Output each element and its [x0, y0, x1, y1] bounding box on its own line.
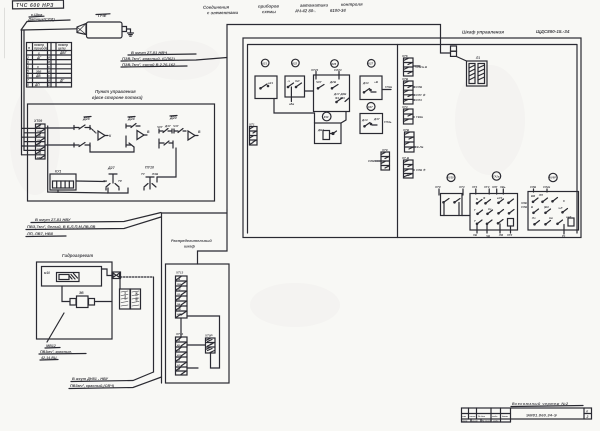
svg-text:пров: пров	[462, 421, 468, 423]
svg-text:Р1: Р1	[562, 234, 566, 238]
svg-text:лв: лв	[36, 125, 41, 129]
svg-text:ХЛ7: ХЛ7	[491, 185, 498, 189]
svg-text:№ докум: № докум	[482, 420, 492, 423]
svg-text:К26: К26	[332, 62, 337, 66]
svg-text:ХТ4: ХТ4	[458, 185, 465, 189]
label punkt upravleniya	[92, 89, 143, 100]
svg-text:СЛУ ②: СЛУ ②	[416, 93, 426, 97]
relay circle K30	[322, 112, 331, 121]
svg-text:пв: пв	[177, 303, 181, 306]
relay circle K26	[331, 60, 339, 68]
svg-text:цепи: цепи	[58, 47, 66, 51]
wire XT24	[310, 68, 342, 79]
title note	[511, 402, 583, 407]
svg-text:ЭМ81.860.34-Э: ЭМ81.860.34-Э	[526, 413, 557, 418]
contact box K26	[314, 75, 350, 112]
svg-text:КУ6Р: КУ6Р	[549, 176, 556, 180]
wires raspred	[187, 344, 206, 346]
svg-text:К22: К22	[292, 61, 297, 65]
svg-text:ХТЗ: ХТЗ	[483, 185, 490, 189]
svg-text:Шкаф управления: Шкаф управления	[462, 29, 504, 35]
svg-text:лз: лз	[36, 138, 41, 142]
terminal strip XT7	[401, 156, 426, 178]
svg-text:тр: тр	[177, 283, 181, 286]
svg-text:ХТ09: ХТ09	[33, 119, 42, 123]
svg-text:Г: Г	[474, 208, 476, 212]
svg-text:х: х	[36, 65, 39, 69]
svg-text:Д27: Д27	[107, 166, 116, 170]
tall label boxes	[120, 278, 141, 309]
svg-text:СЛВ: СЛВ	[416, 85, 422, 89]
svg-text:ЖВ ПВ²: ЖВ ПВ²	[135, 291, 139, 302]
svg-text:ХТ0Р: ХТ0Р	[204, 334, 213, 338]
note MV12	[39, 344, 86, 360]
wire bus mid	[274, 99, 315, 124]
svg-text:СЛЗ: СЛЗ	[416, 98, 422, 102]
svg-text:5: 5	[27, 70, 29, 74]
contact box middle	[470, 185, 518, 238]
wire jog to connector	[102, 269, 113, 276]
svg-text:кр: кр	[177, 344, 180, 347]
svg-text:ту: ту	[37, 134, 41, 138]
contact box K21	[255, 76, 277, 99]
connector L1	[467, 56, 488, 86]
wire KU1 to D27	[76, 180, 105, 183]
svg-text:синий: синий	[124, 292, 128, 300]
label shkaf upravleniya	[462, 29, 570, 35]
inner box M10	[42, 267, 102, 287]
svg-text:с элементами: с элементами	[207, 10, 239, 15]
svg-text:№ док: № док	[478, 415, 486, 418]
svg-text:1: 1	[48, 83, 50, 87]
svg-text:ХТ14: ХТ14	[175, 332, 184, 336]
svg-text:Д2В: Д2В	[329, 80, 337, 84]
svg-text:лз: лз	[176, 293, 181, 296]
svg-text:нв: нв	[37, 155, 41, 159]
svg-text:Д33: Д33	[362, 81, 369, 85]
svg-text:4: 4	[26, 65, 29, 69]
note wires vjgut left bottom	[26, 213, 161, 237]
amplifier triangle K	[98, 131, 105, 140]
svg-text:2: 2	[26, 56, 29, 60]
svg-text:6: 6	[27, 74, 29, 78]
terminal strip XT9	[368, 148, 390, 170]
svg-text:ХТ24: ХТ24	[310, 68, 319, 72]
wire stamp to bus	[21, 22, 27, 31]
relay circle K22	[292, 59, 300, 67]
svg-text:ХВ: ХВ	[472, 233, 477, 237]
svg-text:ЛП, ЛВ7, НВ8: ЛП, ЛВ7, НВ8	[26, 231, 54, 236]
relay contacts D20	[157, 116, 201, 149]
svg-text:Ч07: Ч07	[316, 80, 322, 84]
component EV	[62, 286, 112, 308]
svg-text:а5в: а5в	[289, 102, 294, 106]
svg-text:зл: зл	[177, 359, 180, 362]
terminal strip XT09	[33, 119, 45, 159]
svg-text:Распределительный: Распределительный	[171, 239, 212, 243]
wire under relays	[90, 147, 134, 152]
svg-text:контроля: контроля	[341, 2, 363, 7]
svg-text:ДП: ДП	[34, 83, 40, 87]
svg-text:вб: вб	[177, 297, 181, 301]
ground	[127, 29, 134, 36]
svg-text:К27: К27	[368, 62, 373, 66]
svg-text:тр: тр	[37, 129, 41, 133]
connector funnel	[77, 24, 86, 35]
motor M6	[87, 13, 127, 38]
svg-text:ГЛЗь: ГЛЗь	[384, 120, 392, 124]
svg-text:Ч07: Ч07	[157, 125, 163, 129]
svg-text:Лч: Лч	[531, 216, 536, 220]
wire strip to contacts	[22, 128, 36, 154]
svg-text:ЭВ: ЭВ	[79, 291, 84, 295]
box punkt upravleniya	[28, 104, 215, 201]
svg-text:Соединения: Соединения	[203, 5, 230, 10]
svg-text:Д24: Д24	[127, 117, 135, 121]
relay circle KU20	[447, 174, 455, 182]
svg-text:ДВГ: ДВГ	[59, 51, 68, 55]
svg-text:ХТ0: ХТ0	[434, 185, 441, 189]
contact group XT0 XT4	[434, 185, 470, 216]
svg-text:СЛВ: СЛВ	[368, 159, 375, 163]
svg-text:В: В	[531, 205, 533, 209]
wire bus to raspred	[198, 210, 228, 264]
svg-text:Д20: Д20	[169, 116, 177, 120]
svg-text:КУ1: КУ1	[55, 170, 61, 174]
svg-text:ТР: ТР	[118, 179, 122, 183]
cabinet connector top	[451, 46, 467, 61]
svg-text:Д47: Д47	[164, 124, 171, 128]
svg-text:СЛ24: СЛ24	[334, 68, 342, 72]
relay contacts D24	[126, 117, 150, 148]
box gidroagregat	[37, 262, 113, 339]
terminal strip XT5	[402, 128, 424, 152]
svg-text:п: п	[28, 46, 30, 50]
wire bus right vertical	[153, 277, 155, 372]
svg-text:ЛЛ: ЛЛ	[538, 193, 543, 197]
svg-text:Л1: Л1	[475, 56, 480, 60]
pushbutton PU10	[141, 166, 159, 191]
labels XLV SLV	[520, 201, 527, 209]
relay contacts D25	[74, 117, 112, 149]
svg-text:схемы: схемы	[262, 9, 276, 14]
svg-text:подп: подп	[493, 420, 499, 423]
svg-text:СЛВ: СЛВ	[521, 205, 527, 209]
svg-text:провода: провода	[34, 47, 48, 51]
svg-text:ту: ту	[177, 288, 181, 291]
svg-text:лист: лист	[469, 416, 476, 418]
svg-text:лв: лв	[176, 278, 181, 281]
wire D20 down	[157, 148, 176, 177]
svg-text:К: К	[563, 199, 565, 203]
svg-text:Ч37: Ч37	[173, 124, 179, 128]
connector arrows	[112, 272, 121, 279]
outer lines raspred	[162, 213, 228, 383]
svg-text:К47: К47	[368, 105, 373, 109]
svg-text:ХТ-В: ХТ-В	[401, 156, 410, 160]
relay circle KU6R	[549, 173, 557, 181]
svg-text:ГА2в: ГА2в	[493, 174, 500, 178]
divider middle	[397, 45, 399, 238]
svg-text:м10: м10	[44, 271, 50, 275]
svg-text:2: 2	[586, 415, 589, 419]
svg-text:К30: К30	[324, 115, 329, 119]
svg-text:в: в	[48, 69, 50, 73]
svg-text:8: 8	[27, 83, 29, 87]
leader line MV12	[47, 313, 64, 342]
svg-text:В жгут 27-81 НВУ: В жгут 27-81 НВУ	[35, 217, 71, 222]
svg-text:Д13: Д13	[361, 118, 368, 122]
svg-text:ЧВ: ЧВ	[486, 234, 490, 238]
svg-text:СЛВ: СЛВ	[530, 185, 536, 189]
svg-text:Гидроагрегат: Гидроагрегат	[62, 253, 93, 258]
svg-text:6100-34: 6100-34	[330, 8, 346, 13]
svg-text:нв: нв	[177, 313, 181, 316]
svg-text:АЧ-42 80-.: АЧ-42 80-.	[294, 8, 316, 13]
header text	[203, 2, 363, 16]
terminal strip XT6	[401, 54, 427, 76]
svg-text:ХТ13: ХТ13	[175, 271, 184, 275]
terminal strip XT0R	[204, 334, 215, 354]
svg-text:автоматики: автоматики	[300, 2, 329, 7]
terminal strip XT14	[175, 332, 187, 375]
svg-text:в: в	[48, 56, 50, 60]
wire left bus vertical 2	[23, 30, 25, 150]
wire main bus to cabinet connector	[227, 25, 451, 211]
terminal strip XT8	[401, 77, 426, 104]
wire motor bus	[22, 29, 78, 30]
svg-text:в)все стороне потока): в)все стороне потока)	[92, 95, 143, 100]
svg-text:ч.Л: ч.Л	[558, 206, 562, 210]
terminal strip XT1	[248, 123, 257, 146]
svg-text:изм: изм	[462, 416, 466, 418]
svg-text:ГВ3в: ГВ3в	[416, 115, 423, 119]
svg-text:ХТ9: ХТ9	[381, 148, 388, 152]
svg-text:3: 3	[27, 60, 29, 64]
svg-text:ЛЗВ: ЛЗВ	[151, 172, 159, 176]
svg-text:св: св	[177, 339, 180, 342]
svg-text:жл: жл	[176, 354, 181, 357]
node label cable datchik	[27, 12, 70, 22]
svg-text:пв: пв	[37, 147, 41, 151]
svg-text:ГЛЗв: ГЛЗв	[385, 85, 392, 89]
note bottom vjgut	[69, 372, 162, 389]
svg-text:приборов: приборов	[258, 4, 279, 9]
svg-text:ПВЗ,7мч², белый, В Б,Л,П,М,ЛВ: ПВЗ,7мч², белый, В Б,Л,П,М,ЛВ,ЛВ	[27, 224, 95, 229]
relay circle K47	[367, 103, 375, 111]
svg-text:подп: подп	[492, 415, 498, 418]
label raspredelitelny shkaf	[171, 239, 212, 249]
inner border main	[248, 45, 578, 234]
stamp box	[12, 0, 63, 9]
svg-text:зав: зав	[36, 70, 41, 74]
svg-text:(ВЗ: (ВЗ	[544, 205, 549, 209]
connector KU1	[50, 170, 76, 191]
pushbutton D27	[102, 166, 128, 193]
svg-text:СЛВ ⑦: СЛВ ⑦	[416, 168, 426, 172]
svg-text:дата: дата	[502, 415, 509, 418]
svg-text:в: в	[48, 60, 50, 64]
svg-text:КУ20: КУ20	[447, 176, 454, 180]
svg-text:лист: лист	[471, 421, 478, 423]
relay circle K21	[261, 59, 269, 67]
note wires vjgut top	[121, 50, 227, 67]
terminal strip XT13	[175, 271, 187, 319]
svg-text:лф: лф	[176, 307, 182, 311]
svg-text:СЛ2в: СЛ2в	[543, 185, 550, 189]
svg-text:Д25: Д25	[82, 117, 91, 121]
svg-text:Д47: Д47	[373, 117, 380, 121]
title block	[462, 408, 592, 423]
svg-text:шкаф: шкаф	[184, 245, 195, 249]
svg-text:7: 7	[27, 79, 29, 83]
relay circle GA2v	[492, 172, 500, 180]
svg-text:ТЧС 600 НРЗ: ТЧС 600 НРЗ	[16, 3, 54, 9]
relay circle K27	[368, 60, 376, 68]
svg-text:вб: вб	[37, 142, 41, 146]
svg-text:ХВь: ХВь	[499, 185, 506, 189]
svg-text:гл: гл	[177, 364, 180, 367]
contact box K27	[360, 76, 392, 100]
svg-text:ЩДС890-15.-34: ЩДС890-15.-34	[536, 29, 570, 34]
svg-text:вУ0: вУ0	[497, 196, 503, 200]
svg-text:Е.Лв: Е.Лв	[417, 145, 424, 149]
svg-text:Т: Т	[474, 219, 476, 223]
svg-text:ПУ10: ПУ10	[145, 166, 154, 170]
svg-text:ХТ4: ХТ4	[471, 185, 478, 189]
contact box K22	[285, 76, 313, 106]
scan fold line	[4, 8, 6, 58]
outer box main	[243, 38, 581, 238]
terminal strip XT4	[401, 105, 423, 124]
svg-text:ЛВ: ЛВ	[102, 179, 108, 183]
amplifier triangle D20	[188, 131, 195, 140]
wire left bus vertical	[21, 30, 23, 155]
svg-text:-ч: -ч	[287, 79, 290, 83]
amplifier triangle D24	[137, 131, 144, 140]
wire K26 to K30	[341, 112, 346, 124]
svg-text:ДВ: ДВ	[35, 74, 41, 78]
wire table	[26, 43, 72, 88]
svg-text:чр: чр	[177, 368, 181, 371]
svg-text:а31: а31	[268, 81, 273, 85]
svg-text:Пункт управления: Пункт управления	[95, 89, 136, 94]
wire dashed to bus	[121, 276, 154, 278]
svg-text:в: в	[48, 79, 50, 83]
contact box right R1	[528, 185, 579, 238]
svg-text:ХТ0: ХТ0	[506, 233, 513, 237]
contact box K30	[315, 123, 342, 144]
svg-text:ЛФ: ЛФ	[498, 233, 504, 237]
svg-text:К21: К21	[262, 61, 267, 65]
contact box K47	[360, 114, 392, 134]
inner box raspred	[166, 264, 230, 383]
svg-text:ХТВ: ХТВ	[402, 128, 410, 132]
